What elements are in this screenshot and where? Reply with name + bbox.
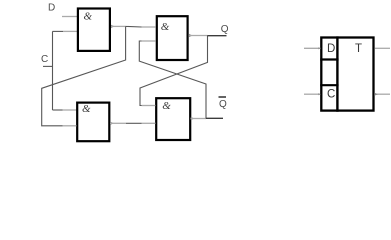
svg-text:Q: Q <box>219 99 227 110</box>
U5 internal divider C cell <box>320 84 338 86</box>
wire U1 out stub <box>111 25 126 27</box>
wire U2 out stub <box>189 35 208 37</box>
pin arrow U5 Q out <box>374 93 378 96</box>
wire U3 in1 stub <box>63 109 77 111</box>
wire U2 in2 stub <box>142 40 156 42</box>
svg-text:C: C <box>327 89 335 101</box>
svg-text:T: T <box>355 43 362 55</box>
svg-text:&: & <box>161 21 170 33</box>
wire Qbar output <box>206 117 223 119</box>
pin arrow U3 out <box>110 122 114 125</box>
wire node Qbar to U2 in2 (cross feedback) <box>139 41 206 119</box>
wire C to U3 in1 <box>53 109 63 111</box>
wire U4 in2 stub <box>142 122 156 124</box>
wire U1 out to U2 in1 <box>126 25 142 28</box>
svg-text:C: C <box>41 54 48 65</box>
wire U3 in2 stub <box>63 125 77 127</box>
nand gate U2 <box>157 16 188 60</box>
wire U2 in1 stub <box>142 26 156 28</box>
wire U4 in1 stub <box>142 105 156 107</box>
wire node Q to U4 in1 (cross feedback) <box>140 36 208 106</box>
svg-text:D: D <box>48 3 55 14</box>
wire Q output <box>208 35 227 37</box>
wire U1 out branch down to U3 in2 <box>42 26 126 125</box>
flip-flop block U5 outer box <box>321 38 373 111</box>
pin arrow U1 out <box>111 25 115 28</box>
svg-text:&: & <box>84 10 93 22</box>
wire C to U1 in2 <box>53 30 64 32</box>
wire U5 C input stub <box>304 93 320 95</box>
wire U5 Q output stub <box>375 93 390 95</box>
wire U5 T output stub <box>375 47 390 49</box>
svg-text:D: D <box>327 43 335 55</box>
pin arrow U2 out <box>189 34 193 37</box>
Qbar overline <box>219 96 227 98</box>
wire U3 out to U4 in2 <box>126 122 142 124</box>
wire C horizontal to vertical bus <box>43 65 53 67</box>
svg-text:&: & <box>162 100 171 112</box>
wire C vertical bus <box>52 31 54 110</box>
wire U3 out stub <box>110 122 126 124</box>
nand gate U1 <box>78 9 110 51</box>
U5 internal divider D cell <box>320 58 338 60</box>
pin arrow U4 out <box>191 117 195 120</box>
wire U5 D input stub <box>304 47 320 49</box>
wire U4 out stub <box>191 118 207 120</box>
svg-text:Q: Q <box>221 24 229 35</box>
pin arrow U5 D <box>318 47 321 49</box>
nand gate U3 <box>77 103 109 142</box>
svg-text:&: & <box>82 103 91 115</box>
wire U1 in2 stub <box>63 30 77 32</box>
pin arrow U5 C <box>318 93 321 95</box>
nand gate U4 <box>156 98 190 140</box>
U5 internal divider vertical <box>336 36 338 111</box>
wire D input stub to U1 <box>62 16 77 18</box>
